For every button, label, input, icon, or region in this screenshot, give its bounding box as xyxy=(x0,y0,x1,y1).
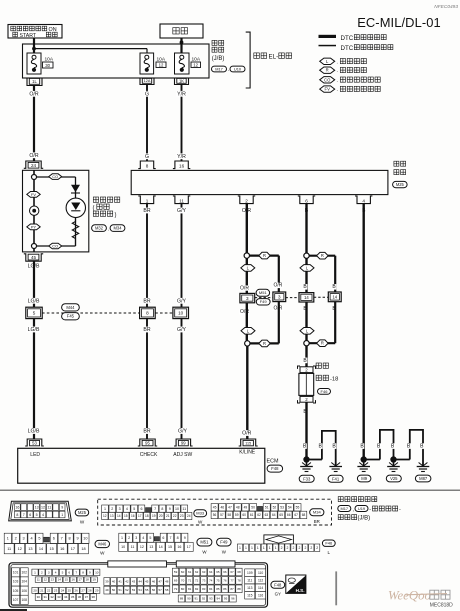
svg-text:START: START xyxy=(20,33,37,39)
svg-text:110: 110 xyxy=(258,571,263,575)
svg-text:30: 30 xyxy=(37,595,41,599)
svg-text:9: 9 xyxy=(61,505,63,509)
svg-text:50: 50 xyxy=(251,506,255,510)
svg-text:15: 15 xyxy=(65,578,69,582)
svg-text:BR: BR xyxy=(143,208,150,214)
svg-text:10: 10 xyxy=(95,570,99,574)
svg-text:8: 8 xyxy=(146,164,149,169)
svg-text:ADJ SW: ADJ SW xyxy=(173,452,192,458)
svg-text:54: 54 xyxy=(288,506,292,510)
svg-text:16: 16 xyxy=(131,514,135,518)
svg-text:64: 64 xyxy=(272,513,276,517)
svg-text:6: 6 xyxy=(305,199,308,204)
svg-text:65: 65 xyxy=(216,570,220,574)
svg-text:U10: U10 xyxy=(234,66,242,71)
svg-text:L: L xyxy=(328,550,331,555)
svg-text:R: R xyxy=(326,68,329,73)
svg-text:FV: FV xyxy=(325,87,331,92)
svg-text:(: ( xyxy=(93,205,95,211)
svg-text:42: 42 xyxy=(125,580,129,584)
svg-text:ECM: ECM xyxy=(267,458,279,464)
svg-text:F48: F48 xyxy=(274,582,282,587)
svg-text:60: 60 xyxy=(242,513,246,517)
svg-text:8: 8 xyxy=(146,311,149,316)
svg-text:12: 12 xyxy=(41,505,45,509)
svg-text:1: 1 xyxy=(269,546,271,550)
svg-text:BR: BR xyxy=(143,298,150,304)
svg-text:59: 59 xyxy=(174,570,178,574)
svg-text:2: 2 xyxy=(298,546,300,550)
svg-text:92: 92 xyxy=(202,597,206,601)
svg-text:2: 2 xyxy=(15,537,17,541)
svg-text:71: 71 xyxy=(188,579,192,583)
svg-text:17: 17 xyxy=(71,547,75,551)
svg-text:3: 3 xyxy=(246,296,249,301)
svg-text:4: 4 xyxy=(55,570,57,574)
svg-text:116: 116 xyxy=(258,594,263,598)
svg-text:1: 1 xyxy=(146,199,149,204)
svg-text:37: 37 xyxy=(85,595,89,599)
svg-text:66: 66 xyxy=(223,570,227,574)
svg-text:55: 55 xyxy=(145,588,149,592)
svg-text:17: 17 xyxy=(187,545,191,549)
svg-text:1: 1 xyxy=(275,546,277,550)
svg-text:17: 17 xyxy=(79,578,83,582)
svg-text:15: 15 xyxy=(49,547,53,551)
svg-text:99: 99 xyxy=(181,441,186,446)
svg-text:28: 28 xyxy=(88,589,92,593)
svg-text:M25: M25 xyxy=(396,182,405,187)
svg-text:M34: M34 xyxy=(313,510,322,515)
svg-text:R: R xyxy=(263,253,266,258)
svg-text:93: 93 xyxy=(209,597,213,601)
svg-text:5: 5 xyxy=(133,507,135,511)
svg-text:2: 2 xyxy=(111,507,113,511)
svg-text:47: 47 xyxy=(159,580,163,584)
svg-text:15: 15 xyxy=(168,545,172,549)
svg-text:): ) xyxy=(115,212,117,218)
svg-text:113: 113 xyxy=(247,586,252,590)
svg-text:52: 52 xyxy=(125,588,129,592)
svg-text:F45: F45 xyxy=(67,314,75,319)
svg-text:32: 32 xyxy=(50,595,54,599)
svg-text:PY: PY xyxy=(31,224,37,229)
svg-text:86: 86 xyxy=(223,587,227,591)
svg-text:59: 59 xyxy=(235,513,239,517)
svg-text:1: 1 xyxy=(245,546,247,550)
svg-text:M9: M9 xyxy=(361,476,367,481)
svg-text:GY: GY xyxy=(275,591,281,596)
svg-text:22: 22 xyxy=(47,589,51,593)
svg-text:DTC: DTC xyxy=(341,35,354,42)
svg-text:12: 12 xyxy=(193,63,198,68)
svg-text:2: 2 xyxy=(304,546,306,550)
svg-text:24: 24 xyxy=(61,589,65,593)
svg-text:8: 8 xyxy=(177,536,179,540)
svg-text:M34: M34 xyxy=(114,226,123,231)
svg-text:3: 3 xyxy=(119,507,121,511)
svg-text:11: 11 xyxy=(48,505,52,509)
svg-text:M33: M33 xyxy=(196,511,205,516)
svg-text:1: 1 xyxy=(104,507,106,511)
svg-text:2: 2 xyxy=(128,536,130,540)
svg-text:36: 36 xyxy=(78,595,82,599)
svg-text:R: R xyxy=(321,341,324,346)
svg-text:76: 76 xyxy=(223,579,227,583)
svg-text:7: 7 xyxy=(154,507,156,511)
svg-text:16: 16 xyxy=(60,547,64,551)
svg-text:23: 23 xyxy=(180,514,184,518)
svg-text:62: 62 xyxy=(195,570,199,574)
svg-text:9: 9 xyxy=(76,537,78,541)
svg-text:4: 4 xyxy=(142,536,144,540)
svg-text:63: 63 xyxy=(265,513,269,517)
svg-text:101: 101 xyxy=(13,571,19,575)
svg-text:94: 94 xyxy=(217,597,221,601)
svg-text:16: 16 xyxy=(72,578,76,582)
svg-text:M46: M46 xyxy=(98,542,107,547)
svg-text:7: 7 xyxy=(170,536,172,540)
svg-text:72: 72 xyxy=(195,579,199,583)
svg-text:CO: CO xyxy=(52,243,58,248)
svg-text:7: 7 xyxy=(61,537,63,541)
svg-text:87: 87 xyxy=(230,587,234,591)
svg-text:17: 17 xyxy=(138,514,142,518)
svg-text:20: 20 xyxy=(33,589,37,593)
svg-text:U19: U19 xyxy=(358,506,365,511)
svg-text:G/Y: G/Y xyxy=(177,298,186,304)
svg-text:11: 11 xyxy=(182,507,186,511)
svg-text:35: 35 xyxy=(71,595,75,599)
svg-text:.: . xyxy=(228,67,229,73)
svg-text:9: 9 xyxy=(89,570,91,574)
svg-text:R: R xyxy=(263,341,266,346)
svg-text:G: G xyxy=(145,91,149,97)
svg-text:107: 107 xyxy=(13,598,19,602)
svg-text:W: W xyxy=(80,519,85,524)
svg-text:CO: CO xyxy=(52,174,58,179)
svg-text:25: 25 xyxy=(68,589,72,593)
svg-text:49: 49 xyxy=(244,506,248,510)
svg-text:R: R xyxy=(321,253,324,258)
svg-text:.: . xyxy=(337,78,338,84)
svg-text:27: 27 xyxy=(81,589,85,593)
svg-text:5: 5 xyxy=(36,513,38,517)
svg-text:90: 90 xyxy=(187,597,191,601)
svg-text:111: 111 xyxy=(247,578,252,582)
svg-text:81: 81 xyxy=(188,587,192,591)
svg-text:K/LINE: K/LINE xyxy=(239,450,256,456)
svg-text:WeeQoo: WeeQoo xyxy=(388,588,431,602)
svg-text:.: . xyxy=(337,87,338,93)
svg-text:10A: 10A xyxy=(192,56,201,62)
svg-text:M17: M17 xyxy=(341,506,349,511)
svg-text:52: 52 xyxy=(273,506,277,510)
svg-text:F46: F46 xyxy=(321,389,329,394)
svg-text:1: 1 xyxy=(251,546,253,550)
svg-text:12A: 12A xyxy=(144,79,151,83)
svg-text:48: 48 xyxy=(236,506,240,510)
svg-text:66: 66 xyxy=(287,513,291,517)
svg-text:3: 3 xyxy=(278,295,281,300)
svg-text:109: 109 xyxy=(247,571,253,575)
svg-text:16: 16 xyxy=(177,545,181,549)
svg-text:61: 61 xyxy=(188,570,192,574)
svg-text:24: 24 xyxy=(31,163,37,168)
svg-text:18: 18 xyxy=(86,578,90,582)
svg-text:7: 7 xyxy=(23,513,25,517)
svg-text:DTC: DTC xyxy=(341,45,354,52)
svg-text:10A: 10A xyxy=(157,56,166,62)
svg-text:6: 6 xyxy=(53,537,55,541)
svg-text:2: 2 xyxy=(310,546,312,550)
svg-text:30: 30 xyxy=(45,63,50,68)
svg-text:65: 65 xyxy=(279,513,283,517)
svg-text:69: 69 xyxy=(174,579,178,583)
svg-text:-: - xyxy=(369,507,371,513)
svg-text:11: 11 xyxy=(7,547,11,551)
svg-text:6: 6 xyxy=(29,513,31,517)
svg-text:13: 13 xyxy=(110,514,114,518)
svg-text:70: 70 xyxy=(181,579,185,583)
svg-text:6: 6 xyxy=(68,570,70,574)
svg-text:O/R: O/R xyxy=(273,283,282,289)
svg-text:1: 1 xyxy=(61,513,63,517)
svg-text:45: 45 xyxy=(145,580,149,584)
svg-text:39: 39 xyxy=(105,580,109,584)
svg-text:63: 63 xyxy=(202,570,206,574)
svg-text:74: 74 xyxy=(209,579,213,583)
svg-text:14: 14 xyxy=(304,295,309,300)
svg-text:5: 5 xyxy=(38,537,40,541)
svg-text:14: 14 xyxy=(159,545,163,549)
svg-text:64: 64 xyxy=(209,570,213,574)
svg-text:46: 46 xyxy=(220,506,224,510)
svg-text:4: 4 xyxy=(126,507,128,511)
svg-text:5: 5 xyxy=(149,536,151,540)
svg-text:5: 5 xyxy=(33,311,36,316)
svg-text:H.S.: H.S. xyxy=(296,588,305,593)
svg-text:75: 75 xyxy=(216,579,220,583)
svg-text:G/Y: G/Y xyxy=(177,208,186,214)
svg-text:10A: 10A xyxy=(45,56,54,62)
svg-text:23: 23 xyxy=(54,589,58,593)
svg-text:46: 46 xyxy=(152,580,156,584)
svg-text:12: 12 xyxy=(103,514,107,518)
svg-text:14: 14 xyxy=(332,294,337,299)
svg-text:F41: F41 xyxy=(332,476,340,481)
svg-text:W: W xyxy=(198,519,203,524)
svg-text:V25: V25 xyxy=(390,476,398,481)
svg-text:LG/B: LG/B xyxy=(28,298,40,304)
svg-text:19: 19 xyxy=(152,514,156,518)
svg-text:6: 6 xyxy=(162,536,164,540)
svg-text:1: 1 xyxy=(7,537,9,541)
svg-text:114: 114 xyxy=(258,586,263,590)
svg-text:NFEC0493: NFEC0493 xyxy=(434,4,458,10)
svg-text:O/R: O/R xyxy=(240,285,249,291)
svg-text:38: 38 xyxy=(92,595,96,599)
svg-text:18: 18 xyxy=(81,547,85,551)
svg-text:51: 51 xyxy=(119,588,123,592)
svg-text:14: 14 xyxy=(58,578,62,582)
svg-text:33: 33 xyxy=(57,595,61,599)
svg-text:G/Y: G/Y xyxy=(177,327,186,333)
svg-text:4: 4 xyxy=(30,537,32,541)
svg-text:LED: LED xyxy=(30,452,40,458)
svg-text:BR: BR xyxy=(314,519,320,524)
svg-text:M44: M44 xyxy=(66,305,75,310)
svg-text:49: 49 xyxy=(105,588,109,592)
svg-text:56: 56 xyxy=(213,513,217,517)
svg-text:2: 2 xyxy=(41,570,43,574)
svg-text:1: 1 xyxy=(257,546,259,550)
svg-text:95: 95 xyxy=(224,597,228,601)
svg-text:M32: M32 xyxy=(95,226,104,231)
svg-text:BR: BR xyxy=(143,327,150,333)
svg-text:58: 58 xyxy=(228,513,232,517)
svg-text:53: 53 xyxy=(280,506,284,510)
svg-text:45: 45 xyxy=(213,506,217,510)
svg-text:Y/R: Y/R xyxy=(177,91,186,97)
svg-text:53: 53 xyxy=(32,441,37,446)
svg-text:10: 10 xyxy=(178,311,184,316)
svg-text:103: 103 xyxy=(13,580,19,584)
svg-text:48: 48 xyxy=(165,580,169,584)
svg-text:M51: M51 xyxy=(259,290,268,295)
svg-text:84: 84 xyxy=(209,587,213,591)
svg-text:80: 80 xyxy=(181,587,185,591)
svg-text:68: 68 xyxy=(302,513,306,517)
svg-text:.: . xyxy=(337,68,338,74)
svg-text:4: 4 xyxy=(362,199,365,204)
svg-text:77: 77 xyxy=(230,579,234,583)
svg-text:12: 12 xyxy=(18,547,22,551)
svg-text:11: 11 xyxy=(179,199,184,204)
svg-text:60: 60 xyxy=(181,570,185,574)
svg-text:LG/B: LG/B xyxy=(28,327,40,333)
svg-text:91: 91 xyxy=(195,597,199,601)
svg-text:3: 3 xyxy=(23,537,25,541)
svg-text:29: 29 xyxy=(95,589,99,593)
svg-text:13: 13 xyxy=(149,545,153,549)
svg-text:1L: 1L xyxy=(32,79,37,84)
svg-text:14: 14 xyxy=(117,514,121,518)
svg-text:-18: -18 xyxy=(330,376,338,382)
svg-text:51: 51 xyxy=(265,506,269,510)
svg-text:16: 16 xyxy=(15,505,19,509)
svg-text:F49: F49 xyxy=(220,540,228,545)
svg-text:96: 96 xyxy=(231,597,235,601)
svg-text:13: 13 xyxy=(51,578,55,582)
svg-text:45: 45 xyxy=(31,255,37,260)
svg-text:56: 56 xyxy=(152,588,156,592)
svg-text:O/R: O/R xyxy=(29,91,38,97)
svg-text:9: 9 xyxy=(184,536,186,540)
svg-text:16: 16 xyxy=(179,164,185,169)
svg-text:1K: 1K xyxy=(179,78,184,83)
svg-text:1: 1 xyxy=(34,570,36,574)
svg-text:.: . xyxy=(337,59,338,65)
svg-text:85: 85 xyxy=(216,587,220,591)
svg-text:68: 68 xyxy=(237,570,241,574)
svg-text:(J/B): (J/B) xyxy=(212,56,225,62)
svg-text:44: 44 xyxy=(139,580,143,584)
svg-text:22: 22 xyxy=(173,514,177,518)
svg-text:FV: FV xyxy=(31,192,36,197)
svg-text:CO: CO xyxy=(324,77,331,82)
svg-text:-: - xyxy=(399,507,401,513)
svg-text:102: 102 xyxy=(21,571,27,575)
svg-text:12: 12 xyxy=(159,63,164,68)
svg-text:CHECK: CHECK xyxy=(140,452,158,458)
svg-text:F49: F49 xyxy=(260,299,268,304)
svg-text:112: 112 xyxy=(258,578,263,582)
svg-text:53: 53 xyxy=(132,588,136,592)
svg-text:6: 6 xyxy=(141,507,143,511)
svg-text:13: 13 xyxy=(35,505,39,509)
svg-text:61: 61 xyxy=(250,513,254,517)
svg-text:10: 10 xyxy=(121,545,125,549)
svg-text:19: 19 xyxy=(93,578,97,582)
svg-text:43: 43 xyxy=(132,580,136,584)
svg-text:BR: BR xyxy=(143,429,150,435)
svg-text:105: 105 xyxy=(13,589,19,593)
svg-text:11: 11 xyxy=(37,578,40,582)
svg-text:15: 15 xyxy=(124,514,128,518)
svg-text:89: 89 xyxy=(180,597,184,601)
svg-text:9: 9 xyxy=(169,507,171,511)
svg-text:12: 12 xyxy=(140,545,144,549)
svg-text:M25: M25 xyxy=(78,510,87,515)
svg-text:34: 34 xyxy=(64,595,68,599)
svg-text:7: 7 xyxy=(75,570,77,574)
svg-text:26: 26 xyxy=(75,589,79,593)
svg-text:18: 18 xyxy=(145,514,149,518)
svg-text:2: 2 xyxy=(245,199,248,204)
svg-text:21: 21 xyxy=(40,589,44,593)
svg-text:LG/B: LG/B xyxy=(28,429,40,435)
svg-text:8: 8 xyxy=(161,507,163,511)
svg-text:2: 2 xyxy=(281,546,283,550)
svg-text:88: 88 xyxy=(237,587,241,591)
svg-text:F33: F33 xyxy=(303,476,311,481)
svg-text:W: W xyxy=(100,551,105,556)
svg-text:3: 3 xyxy=(135,536,137,540)
svg-text:21: 21 xyxy=(166,514,170,518)
svg-text:67: 67 xyxy=(230,570,234,574)
svg-text:(J/B): (J/B) xyxy=(358,516,371,522)
svg-text:104: 104 xyxy=(21,580,27,584)
svg-text:24: 24 xyxy=(187,514,191,518)
svg-text:F48: F48 xyxy=(271,466,279,471)
svg-text:57: 57 xyxy=(159,588,163,592)
svg-text:1: 1 xyxy=(263,546,265,550)
svg-text:83: 83 xyxy=(202,587,206,591)
svg-text:62: 62 xyxy=(257,513,261,517)
svg-text:82: 82 xyxy=(195,587,199,591)
svg-text:73: 73 xyxy=(202,579,206,583)
svg-text:G/Y: G/Y xyxy=(178,429,187,435)
svg-text:106: 106 xyxy=(21,589,27,593)
svg-text:4: 4 xyxy=(42,513,44,517)
svg-text:2: 2 xyxy=(287,546,289,550)
svg-text:47: 47 xyxy=(228,506,232,510)
svg-text:Y/R: Y/R xyxy=(177,154,186,160)
svg-text:108: 108 xyxy=(21,598,27,602)
svg-text:10: 10 xyxy=(83,537,87,541)
svg-text:8: 8 xyxy=(69,537,71,541)
